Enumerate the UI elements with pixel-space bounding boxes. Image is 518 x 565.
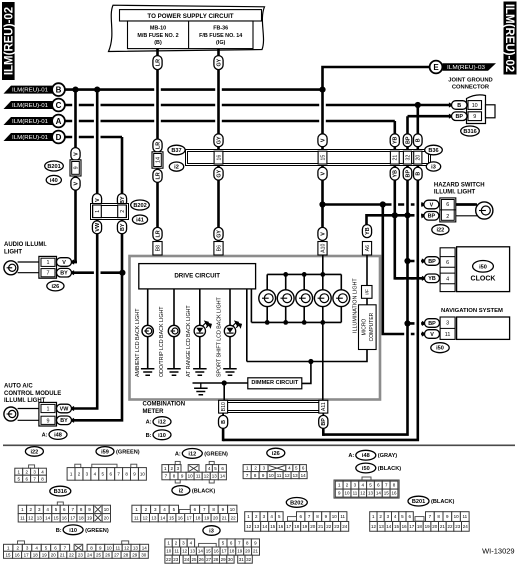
svg-text:14: 14 bbox=[301, 473, 307, 478]
svg-text:A10: A10 bbox=[320, 243, 326, 252]
wire V column to flag E / meter A10 bbox=[323, 67, 437, 255]
svg-text:1: 1 bbox=[95, 210, 101, 213]
audio lamp wires bbox=[18, 261, 39, 263]
svg-text:1: 1 bbox=[47, 260, 50, 266]
svg-text:24: 24 bbox=[342, 524, 348, 529]
svg-text:24: 24 bbox=[87, 552, 93, 557]
svg-text:13: 13 bbox=[133, 545, 139, 550]
svg-text:2: 2 bbox=[446, 214, 449, 220]
svg-text:11: 11 bbox=[20, 515, 25, 520]
svg-text:B: B bbox=[56, 86, 62, 95]
svg-text:DRIVE CIRCUIT: DRIVE CIRCUIT bbox=[174, 273, 220, 280]
meter internal ground bbox=[200, 383, 202, 388]
svg-text:14: 14 bbox=[155, 157, 161, 163]
svg-text:i26: i26 bbox=[52, 284, 60, 290]
svg-text:i48: i48 bbox=[362, 453, 370, 459]
svg-text:AUDIO ILLUMI.: AUDIO ILLUMI. bbox=[4, 242, 47, 248]
wire A6 to I/F bbox=[366, 255, 368, 285]
svg-text:COMPUTER: COMPUTER bbox=[369, 312, 375, 341]
svg-text:11: 11 bbox=[353, 491, 358, 496]
svg-text:19: 19 bbox=[302, 524, 308, 529]
svg-text:29: 29 bbox=[132, 552, 138, 557]
joint ground connector body B316 bbox=[467, 95, 486, 124]
svg-text:18: 18 bbox=[417, 524, 423, 529]
svg-text:LR: LR bbox=[155, 172, 161, 179]
svg-text:12: 12 bbox=[371, 524, 377, 529]
wire dimmer branch bbox=[302, 362, 311, 384]
wire BY column x122 (flag D, audio, auto A/C) bbox=[72, 137, 123, 420]
I/F box bbox=[362, 286, 373, 299]
connector B201/i40 capsule V upper bbox=[71, 148, 80, 161]
svg-text:YB: YB bbox=[393, 136, 399, 144]
svg-text:28: 28 bbox=[123, 552, 129, 557]
svg-text:V: V bbox=[430, 202, 434, 208]
svg-text:12: 12 bbox=[285, 473, 291, 478]
oval i50 nav bbox=[431, 343, 449, 353]
strip capsule V above pin 15 bbox=[318, 134, 327, 147]
connector pinout B316 bbox=[50, 486, 71, 496]
wire B capsule to bus bbox=[222, 427, 225, 441]
oval i3 bbox=[426, 162, 440, 171]
svg-text:11: 11 bbox=[115, 545, 120, 550]
svg-text:GY: GY bbox=[216, 230, 222, 238]
svg-text:15: 15 bbox=[206, 549, 212, 554]
svg-text:i22: i22 bbox=[31, 449, 39, 455]
strip capsule B below pin 20 bbox=[414, 167, 423, 180]
svg-text:BP: BP bbox=[428, 259, 436, 265]
illumination lamp 4 bbox=[322, 274, 324, 290]
svg-text:i50: i50 bbox=[362, 466, 370, 472]
meter capsule LR above B8 bbox=[153, 227, 162, 240]
svg-text:DIMMER CIRCUIT: DIMMER CIRCUIT bbox=[251, 380, 299, 386]
junction BP clock bbox=[404, 258, 410, 264]
svg-text:21: 21 bbox=[440, 524, 446, 529]
wire drive circuit to illumination bottom bus bbox=[250, 289, 252, 323]
connector B202 capsule VW below pin 1 bbox=[92, 221, 101, 234]
junction V row x382.8 (nav) bbox=[380, 201, 386, 207]
in-line connector B202/i41 strip bbox=[91, 204, 129, 220]
svg-text:24: 24 bbox=[184, 557, 190, 562]
svg-text:6: 6 bbox=[446, 260, 449, 266]
svg-text:C: C bbox=[56, 101, 62, 110]
svg-text:ILM(REU)-02: ILM(REU)-02 bbox=[3, 7, 15, 75]
strip capsule GY above pin 16 bbox=[214, 134, 223, 147]
wire B10 to dimmer and ground bbox=[193, 382, 248, 384]
svg-text:V: V bbox=[62, 260, 66, 266]
svg-text:28: 28 bbox=[213, 557, 219, 562]
combination meter box bbox=[130, 256, 381, 400]
meter pin A10 bbox=[318, 242, 327, 256]
oval i50 clock bbox=[473, 261, 494, 273]
connector B37/i2 pin 14 bbox=[152, 152, 163, 168]
illumination lamp 3 bbox=[303, 274, 305, 290]
connector B202 capsule BY below pin 2 bbox=[117, 221, 126, 234]
svg-text:i26: i26 bbox=[272, 451, 280, 457]
connector pinout i2 bbox=[172, 486, 190, 496]
wire GY fuse FB-36 to meter B6 bbox=[217, 49, 220, 256]
audio V wire bbox=[72, 261, 78, 264]
svg-text:24: 24 bbox=[463, 524, 469, 529]
svg-text:10: 10 bbox=[107, 545, 113, 550]
B36 pin 21 bbox=[390, 151, 399, 164]
svg-text:11: 11 bbox=[277, 473, 282, 478]
capsule GY below fuse bbox=[214, 56, 223, 70]
svg-text:20: 20 bbox=[432, 524, 438, 529]
svg-text:21: 21 bbox=[318, 524, 324, 529]
svg-text:V: V bbox=[320, 172, 326, 176]
svg-text:18: 18 bbox=[79, 515, 85, 520]
nav pin column bbox=[440, 317, 455, 339]
oval i2 bbox=[169, 162, 183, 171]
svg-text:31: 31 bbox=[239, 557, 245, 562]
svg-text:16: 16 bbox=[15, 552, 21, 557]
svg-text:11: 11 bbox=[445, 332, 451, 338]
junction BY audio bbox=[119, 270, 125, 276]
svg-text:i22: i22 bbox=[437, 228, 445, 234]
svg-text:YB: YB bbox=[428, 276, 436, 282]
audio illumination bulb bbox=[4, 261, 18, 275]
oval i40 bbox=[46, 175, 61, 184]
meter pin B6 bbox=[214, 242, 223, 256]
svg-text:i10: i10 bbox=[158, 433, 166, 439]
svg-text:GY: GY bbox=[216, 169, 222, 177]
svg-text:B: B bbox=[416, 138, 422, 142]
svg-text:7: 7 bbox=[47, 271, 50, 277]
wire V/VW column x97.2 (auto A/C) bbox=[72, 90, 98, 409]
clock capsule BP bbox=[425, 257, 440, 266]
bus B (V) bbox=[65, 88, 323, 91]
svg-text:i50: i50 bbox=[436, 346, 444, 352]
svg-text:10: 10 bbox=[104, 507, 110, 512]
svg-text:23: 23 bbox=[78, 552, 84, 557]
svg-text:LR: LR bbox=[155, 142, 161, 149]
wire LR fuse MB-10 to meter B8 bbox=[156, 49, 159, 256]
svg-text:12: 12 bbox=[124, 545, 130, 550]
svg-text:NAVIGATION SYSTEM: NAVIGATION SYSTEM bbox=[441, 308, 503, 314]
B36 pin 20 bbox=[414, 151, 422, 164]
page label right ILM(REU)-02 bbox=[504, 2, 517, 75]
illumination lamp 1 bbox=[266, 274, 268, 290]
svg-text:SPORT SHIFT LCD BACK LIGHT: SPORT SHIFT LCD BACK LIGHT bbox=[216, 296, 222, 377]
svg-text:ILM(REU)-01: ILM(REU)-01 bbox=[12, 119, 48, 125]
svg-text:20: 20 bbox=[310, 524, 316, 529]
svg-text:22: 22 bbox=[326, 524, 332, 529]
page label left ILM(REU)-02 bbox=[2, 2, 15, 80]
wire BP capsule to bus bbox=[322, 427, 325, 436]
clock capsule YB bbox=[425, 274, 440, 283]
svg-text:20: 20 bbox=[245, 549, 251, 554]
svg-text:13: 13 bbox=[254, 524, 260, 529]
svg-text:18: 18 bbox=[195, 515, 201, 520]
svg-text:BY: BY bbox=[120, 223, 126, 231]
svg-text:21: 21 bbox=[222, 515, 228, 520]
svg-text:30: 30 bbox=[228, 557, 234, 562]
svg-text:25: 25 bbox=[191, 557, 197, 562]
wire YB column x394.8 bbox=[395, 121, 425, 278]
svg-text:WI-13029: WI-13029 bbox=[482, 547, 515, 556]
svg-text:B202: B202 bbox=[290, 500, 303, 506]
svg-text:ILM(REU)-01: ILM(REU)-01 bbox=[12, 87, 48, 93]
audio capsule BY bbox=[57, 268, 72, 277]
svg-text:(GREEN): (GREEN) bbox=[204, 451, 228, 457]
svg-text:AT RANGE LCD BACK LIGHT: AT RANGE LCD BACK LIGHT bbox=[186, 305, 192, 377]
svg-text:3: 3 bbox=[446, 321, 449, 327]
svg-text:27: 27 bbox=[206, 557, 212, 562]
svg-text:BY: BY bbox=[60, 418, 68, 424]
svg-text:A:: A: bbox=[42, 433, 48, 439]
svg-text:4: 4 bbox=[446, 277, 449, 283]
svg-text:10: 10 bbox=[140, 472, 146, 477]
svg-text:22: 22 bbox=[447, 524, 453, 529]
strip capsule BP above pin 32 bbox=[403, 134, 412, 147]
svg-text:15: 15 bbox=[320, 155, 326, 161]
connector B37/i2 capsule LR lower bbox=[153, 169, 162, 182]
svg-text:20: 20 bbox=[213, 515, 219, 520]
svg-text:19: 19 bbox=[425, 524, 431, 529]
svg-text:13: 13 bbox=[368, 491, 374, 496]
svg-text:A6: A6 bbox=[365, 245, 371, 251]
B202 pin 2 bbox=[118, 205, 127, 218]
svg-text:i2: i2 bbox=[179, 488, 184, 494]
svg-text:CONTROL MODULE: CONTROL MODULE bbox=[4, 391, 61, 397]
junction bus B x322.5 bbox=[319, 87, 325, 93]
in-line connector B36/i3 strip bbox=[186, 150, 431, 166]
svg-text:26: 26 bbox=[199, 557, 205, 562]
svg-text:VW: VW bbox=[95, 222, 101, 232]
hazard V row wire bbox=[323, 203, 476, 206]
connector B37/i2 capsule LR upper bbox=[153, 139, 162, 152]
svg-text:15: 15 bbox=[384, 491, 390, 496]
svg-text:A11: A11 bbox=[321, 402, 327, 411]
flag E ILM(REU)-03 bbox=[430, 61, 443, 74]
svg-text:14: 14 bbox=[220, 474, 226, 479]
audio connector box bbox=[39, 256, 57, 278]
oval B36 bbox=[425, 145, 443, 155]
svg-text:(BLACK): (BLACK) bbox=[192, 488, 215, 494]
flag C ILM(REU)-01 bbox=[4, 101, 54, 109]
flag D ILM(REU)-01 bbox=[4, 133, 54, 141]
svg-text:9: 9 bbox=[47, 418, 50, 424]
joint capsule BP bbox=[452, 112, 468, 121]
svg-text:MICRO: MICRO bbox=[361, 319, 367, 336]
svg-text:BP: BP bbox=[321, 418, 327, 426]
svg-text:10: 10 bbox=[230, 507, 236, 512]
svg-text:10: 10 bbox=[344, 491, 350, 496]
svg-text:I/F: I/F bbox=[365, 289, 371, 295]
svg-text:15: 15 bbox=[53, 515, 59, 520]
svg-text:11: 11 bbox=[174, 549, 179, 554]
audio capsule V bbox=[57, 258, 72, 267]
strip capsule YB above pin 21 bbox=[390, 134, 399, 147]
svg-text:BP: BP bbox=[405, 170, 411, 178]
svg-text:i2: i2 bbox=[174, 165, 179, 171]
svg-text:13: 13 bbox=[379, 524, 385, 529]
nav capsule BP bbox=[425, 319, 440, 328]
svg-text:ILM(REU)-01: ILM(REU)-01 bbox=[12, 103, 48, 109]
svg-text:B10: B10 bbox=[221, 402, 227, 411]
clock body bbox=[457, 247, 510, 292]
junction bus C x417.8 bbox=[415, 102, 421, 108]
svg-text:14: 14 bbox=[45, 515, 51, 520]
svg-text:21: 21 bbox=[60, 552, 66, 557]
svg-text:10: 10 bbox=[166, 549, 172, 554]
svg-text:i50: i50 bbox=[479, 264, 487, 270]
svg-text:V: V bbox=[73, 152, 79, 156]
B202 pin 1 bbox=[93, 205, 102, 218]
connector pinout i59 bbox=[96, 447, 114, 457]
junction BP nav bbox=[404, 320, 410, 326]
svg-text:29: 29 bbox=[221, 557, 227, 562]
svg-text:16: 16 bbox=[391, 491, 397, 496]
svg-text:V: V bbox=[95, 198, 101, 202]
svg-text:YB: YB bbox=[393, 170, 399, 178]
svg-text:14: 14 bbox=[262, 524, 268, 529]
svg-text:METER: METER bbox=[143, 409, 165, 415]
svg-text:BP: BP bbox=[428, 321, 436, 327]
dimmer circuit box bbox=[248, 378, 302, 389]
svg-text:16: 16 bbox=[402, 524, 408, 529]
svg-text:26: 26 bbox=[105, 552, 111, 557]
svg-text:i3: i3 bbox=[209, 529, 214, 535]
meter pin B8 bbox=[153, 242, 162, 256]
branch AMBIENT LCD BACK LIGHT bbox=[147, 289, 149, 326]
clock YB row wire bbox=[395, 277, 425, 280]
meter capsule B below B10 bbox=[219, 415, 228, 428]
auto a/c capsule BY bbox=[57, 416, 72, 425]
svg-text:13: 13 bbox=[293, 473, 299, 478]
svg-text:16: 16 bbox=[216, 155, 222, 161]
connector B201/i40 pin 9 bbox=[70, 160, 81, 176]
svg-text:13: 13 bbox=[151, 515, 157, 520]
flag B ILM(REU)-01 bbox=[4, 86, 54, 94]
hazard capsule V bbox=[424, 200, 439, 209]
svg-text:(GRAY): (GRAY) bbox=[378, 453, 398, 459]
oval i41 bbox=[132, 215, 147, 224]
svg-text:13: 13 bbox=[212, 474, 218, 479]
svg-text:18: 18 bbox=[294, 524, 300, 529]
svg-text:16: 16 bbox=[62, 515, 68, 520]
svg-text:14: 14 bbox=[142, 545, 148, 550]
svg-text:B8: B8 bbox=[155, 245, 161, 251]
svg-text:V: V bbox=[73, 182, 79, 186]
meter bottom connector strip bbox=[221, 401, 327, 413]
branch AT RANGE LCD BACK LIGHT bbox=[199, 289, 201, 326]
svg-text:10: 10 bbox=[269, 473, 275, 478]
B36 pin 15 bbox=[318, 151, 327, 164]
branch SPORT SHIFT LCD BACK LIGHT bbox=[229, 289, 231, 326]
meter pin A11 bbox=[319, 400, 328, 413]
svg-text:CONNECTOR: CONNECTOR bbox=[452, 85, 490, 91]
junction dimmer row bbox=[308, 359, 313, 364]
svg-text:15: 15 bbox=[169, 515, 175, 520]
svg-text:V: V bbox=[430, 332, 434, 338]
connector B201/i40 capsule V lower bbox=[71, 177, 80, 190]
svg-text:B: B bbox=[457, 103, 461, 109]
joint pin 9 bbox=[468, 112, 482, 121]
connector pinout B201 bbox=[408, 496, 429, 506]
svg-text:21: 21 bbox=[393, 155, 399, 161]
svg-text:i12: i12 bbox=[188, 451, 196, 457]
svg-text:ILM(REU)-02: ILM(REU)-02 bbox=[503, 4, 515, 72]
svg-text:V: V bbox=[320, 232, 326, 236]
svg-text:1: 1 bbox=[47, 407, 50, 413]
svg-text:18: 18 bbox=[33, 552, 39, 557]
svg-text:TO POWER SUPPLY CIRCUIT: TO POWER SUPPLY CIRCUIT bbox=[147, 13, 233, 20]
svg-text:17: 17 bbox=[286, 524, 292, 529]
svg-text:LR: LR bbox=[155, 59, 161, 66]
svg-text:VW: VW bbox=[60, 406, 70, 412]
svg-text:B316: B316 bbox=[54, 489, 67, 495]
connector B202 capsule BY above pin 2 bbox=[117, 194, 126, 207]
joint capsule B bbox=[452, 101, 468, 110]
oval B316 bbox=[461, 126, 480, 136]
svg-text:B37: B37 bbox=[171, 148, 181, 154]
nav V row wire bbox=[383, 205, 400, 335]
svg-text:14: 14 bbox=[160, 515, 166, 520]
svg-text:17: 17 bbox=[221, 549, 227, 554]
svg-text:23: 23 bbox=[173, 557, 179, 562]
flag A ILM(REU)-01 bbox=[4, 117, 54, 125]
svg-text:A:: A: bbox=[348, 453, 354, 459]
svg-text:16: 16 bbox=[278, 524, 284, 529]
svg-text:(B): (B) bbox=[154, 40, 162, 46]
branch ODO/TRIP LCD BACK LIGHT bbox=[173, 289, 175, 326]
illumination lamp 2 bbox=[285, 274, 287, 290]
oval i26 audio bbox=[47, 281, 64, 291]
svg-text:16: 16 bbox=[178, 515, 184, 520]
junction bus B x75.5 bbox=[72, 87, 78, 93]
junction BP row x407.5 bbox=[404, 212, 410, 218]
meter capsule GY above B6 bbox=[214, 227, 223, 240]
clock BP row wire bbox=[408, 260, 426, 263]
svg-text:22: 22 bbox=[166, 557, 172, 562]
svg-text:17: 17 bbox=[187, 515, 193, 520]
auto a/c capsule VW bbox=[57, 404, 72, 413]
hazard illumination bulb bbox=[476, 202, 493, 219]
svg-text:i40: i40 bbox=[50, 178, 58, 184]
hazard capsule BP bbox=[424, 212, 439, 221]
connector pinout B202 bbox=[286, 498, 307, 508]
svg-text:10: 10 bbox=[454, 514, 460, 519]
svg-text:12: 12 bbox=[246, 524, 252, 529]
svg-text:25: 25 bbox=[96, 552, 102, 557]
svg-text:12: 12 bbox=[360, 491, 366, 496]
svg-text:i12: i12 bbox=[158, 420, 166, 426]
svg-text:10: 10 bbox=[472, 103, 478, 109]
svg-text:GY: GY bbox=[216, 136, 222, 144]
svg-text:12: 12 bbox=[28, 515, 34, 520]
svg-text:13: 13 bbox=[190, 549, 196, 554]
strip capsule B above pin 20 bbox=[414, 134, 423, 147]
svg-text:14: 14 bbox=[386, 524, 392, 529]
svg-text:V: V bbox=[320, 138, 326, 142]
svg-text:ILM(REU)-03: ILM(REU)-03 bbox=[447, 65, 485, 71]
joint pin 10 bbox=[468, 101, 482, 110]
svg-text:ILLUMINATION LIGHT: ILLUMINATION LIGHT bbox=[352, 278, 358, 333]
connector pinout i22 bbox=[25, 447, 43, 457]
svg-text:i48: i48 bbox=[54, 433, 62, 439]
wire B column x417.8 bbox=[223, 105, 418, 440]
svg-text:GY: GY bbox=[216, 58, 222, 66]
svg-text:HAZARD SWITCH: HAZARD SWITCH bbox=[434, 182, 485, 188]
capsule LR below fuse bbox=[153, 56, 162, 70]
svg-text:21: 21 bbox=[253, 549, 259, 554]
svg-text:23: 23 bbox=[334, 524, 340, 529]
connector pinout i3 bbox=[203, 526, 220, 536]
svg-text:B:: B: bbox=[146, 433, 152, 439]
svg-text:D: D bbox=[56, 133, 62, 142]
svg-text:LIGHT: LIGHT bbox=[4, 249, 22, 255]
